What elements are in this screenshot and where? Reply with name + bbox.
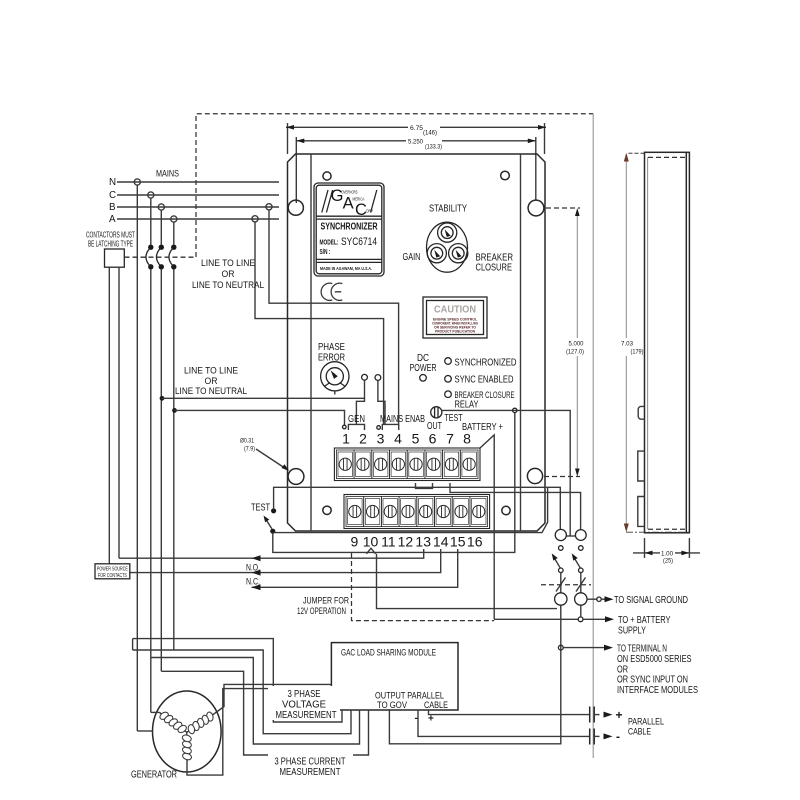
svg-text:MADE IN AGAWAM, MA U.S.A.: MADE IN AGAWAM, MA U.S.A. — [320, 266, 372, 271]
wire from mains B to panel terminal 4 — [269, 210, 399, 424]
wire A drop to contact — [173, 222, 175, 245]
gen jack circle 1 — [362, 374, 368, 380]
svg-text:VOLTAGE: VOLTAGE — [282, 700, 326, 711]
module sense wire 4 — [161, 671, 368, 755]
cable break bars + — [589, 707, 591, 723]
wire gen sense 1 — [162, 397, 365, 399]
dimension 5.000 (127.0) — [546, 207, 580, 209]
svg-text:3: 3 — [377, 431, 385, 447]
svg-text:MODEL:: MODEL: — [320, 238, 339, 247]
parallel cable minus wire — [418, 710, 589, 736]
sense bus end stub — [132, 639, 134, 650]
test jack circles — [555, 529, 566, 540]
svg-text:11: 11 — [381, 534, 396, 550]
svg-text:A: A — [109, 214, 116, 225]
terminal numbers 1-8 — [342, 431, 471, 447]
junction to terminal n — [558, 645, 563, 650]
svg-text:TO TERMINAL N: TO TERMINAL N — [617, 643, 667, 654]
led breaker closure relay — [445, 391, 452, 398]
wire C below contact — [150, 269, 152, 712]
svg-text:CLOSURE: CLOSURE — [476, 263, 513, 274]
svg-text:15: 15 — [450, 534, 466, 550]
svg-text:13: 13 — [415, 534, 431, 550]
wire N drop — [136, 185, 138, 731]
svg-text:BE LATCHING TYPE: BE LATCHING TYPE — [88, 240, 133, 249]
n.c. line to terminal 15 — [252, 549, 458, 587]
svg-text:-: - — [616, 730, 620, 744]
svg-text:3 PHASE CURRENT: 3 PHASE CURRENT — [275, 757, 346, 768]
wire out terminal stub — [416, 483, 433, 488]
svg-text:-: - — [415, 713, 418, 724]
svg-text:5: 5 — [412, 431, 420, 447]
svg-text:5.000: 5.000 — [569, 341, 584, 348]
svg-text:TEST: TEST — [251, 502, 270, 514]
power source box — [95, 564, 130, 579]
generator — [153, 691, 222, 772]
gac load sharing module box — [331, 643, 458, 710]
contactor wire 2 to N.O. line — [118, 267, 120, 558]
svg-text:(127.0): (127.0) — [566, 349, 584, 356]
contactor switch poles — [148, 245, 153, 250]
svg-text:BREAKER CLOSURE: BREAKER CLOSURE — [455, 390, 515, 400]
shield crossing dashes — [541, 584, 591, 586]
lower terminal strip 9-16 — [344, 495, 490, 529]
wire A below contact — [173, 269, 175, 650]
svg-text:SYNCHRONIZED: SYNCHRONIZED — [455, 358, 517, 369]
caution label — [423, 297, 487, 338]
test toggle — [431, 407, 442, 418]
upper terminal strip 1-8 — [334, 448, 480, 481]
to + battery supply line — [494, 618, 578, 620]
module sense wire 3 — [151, 658, 360, 745]
dashed mounting-envelope outline — [196, 114, 593, 257]
svg-text:C: C — [109, 190, 116, 201]
n.o. line to terminal 13 — [119, 549, 424, 558]
svg-text:+: + — [616, 708, 623, 722]
svg-text:(25): (25) — [663, 558, 673, 565]
svg-text:N: N — [109, 177, 116, 188]
svg-text:SYC6714: SYC6714 — [341, 236, 377, 248]
svg-text:LINE TO NEUTRAL: LINE TO NEUTRAL — [175, 386, 247, 397]
contactor wire 1 — [108, 267, 110, 564]
svg-text:TO SIGNAL GROUND: TO SIGNAL GROUND — [614, 594, 688, 606]
svg-text:MEASUREMENT: MEASUREMENT — [280, 767, 341, 778]
svg-text:14: 14 — [433, 534, 449, 550]
wire left test switch bottom to toggle net — [273, 413, 515, 553]
contacts linkage dashed — [125, 256, 197, 258]
side view tabs — [638, 406, 644, 419]
svg-text:12V OPERATION: 12V OPERATION — [297, 606, 346, 617]
gen jack circle 2 — [375, 375, 381, 381]
svg-text:CONTACTORS MUST: CONTACTORS MUST — [86, 231, 135, 240]
junction dot gen A — [172, 408, 177, 413]
terminal cover edge — [274, 487, 548, 532]
svg-text:GENERATOR: GENERATOR — [131, 769, 177, 781]
module sense wire 1 — [133, 639, 342, 722]
svg-text:4: 4 — [394, 431, 402, 447]
svg-text:SYNCHRONIZER: SYNCHRONIZER — [321, 222, 378, 233]
svg-text:OR: OR — [222, 269, 235, 280]
generator winding right — [187, 714, 215, 733]
svg-text:MAINS: MAINS — [156, 169, 179, 180]
led sync enabled — [445, 376, 452, 383]
svg-text:(7.9): (7.9) — [244, 446, 255, 453]
svg-text:+: + — [428, 714, 434, 725]
generator phase C lead — [151, 711, 160, 713]
svg-text:ORP: ORP — [366, 208, 373, 213]
battery+ wire from terminal 8 — [493, 449, 495, 620]
svg-text:POWER: POWER — [410, 363, 437, 374]
svg-text:MEASUREMENT: MEASUREMENT — [276, 710, 337, 721]
generator bottom lead / current wire 2 — [187, 689, 331, 776]
synchronizer panel outline — [288, 154, 546, 531]
svg-text:(179): (179) — [631, 349, 644, 356]
CE mark — [321, 283, 342, 300]
measurement labels — [268, 686, 340, 720]
dimension 6.75 (146) — [286, 123, 546, 154]
node circles on mains lines — [134, 179, 140, 185]
svg-text:CAUTION: CAUTION — [434, 304, 476, 316]
svg-text:TEST: TEST — [445, 412, 463, 424]
toggle wire to jacks — [442, 410, 570, 536]
svg-text:1.00: 1.00 — [661, 551, 673, 558]
svg-text:10: 10 — [363, 534, 379, 550]
svg-text:JUMPER FOR: JUMPER FOR — [303, 596, 349, 607]
svg-text:POWER SOURCE: POWER SOURCE — [97, 566, 128, 572]
svg-text:GEN: GEN — [348, 413, 365, 425]
svg-text:PRODUCT PUBLICATION: PRODUCT PUBLICATION — [435, 329, 475, 334]
svg-text:B: B — [109, 202, 116, 213]
terminal 10 split wire — [367, 548, 376, 554]
svg-text:(146): (146) — [423, 131, 437, 137]
generator winding left — [160, 713, 187, 733]
dimension 1.00 (25) — [644, 538, 646, 558]
svg-text:OR SYNC INPUT ON: OR SYNC INPUT ON — [617, 674, 688, 685]
junction dot gen B — [160, 396, 165, 401]
led synchronized — [445, 358, 452, 365]
svg-text:8: 8 — [463, 431, 471, 447]
svg-text:5.250: 5.250 — [408, 139, 423, 146]
svg-text:7.03: 7.03 — [621, 341, 633, 348]
svg-text:S/N :: S/N : — [320, 247, 331, 256]
wire gen sense 2 — [175, 410, 345, 425]
svg-text:7: 7 — [446, 431, 454, 447]
svg-text:2: 2 — [359, 431, 367, 447]
cable break bars - — [589, 729, 591, 745]
svg-text:SUPPLY: SUPPLY — [618, 625, 646, 637]
ground jack circles — [555, 593, 567, 605]
svg-text:RELAY: RELAY — [455, 400, 479, 411]
svg-text:MAINS ENAB: MAINS ENAB — [380, 413, 425, 425]
side view body — [645, 152, 690, 533]
wire from mains A to panel terminal 3 — [255, 222, 384, 424]
common line to terminal 14 — [130, 549, 441, 573]
parallel cable plus wire — [429, 710, 590, 715]
svg-text:Ø0.31: Ø0.31 — [240, 438, 254, 445]
svg-text:FOR CONTACTS: FOR CONTACTS — [98, 573, 127, 579]
svg-text:ON ESD5000 SERIES: ON ESD5000 SERIES — [617, 654, 692, 665]
svg-text:GAIN: GAIN — [403, 252, 421, 263]
generator phase lead right / current wire 1 — [215, 684, 332, 713]
svg-text:SYNC ENABLED: SYNC ENABLED — [455, 375, 514, 386]
svg-text:16: 16 — [467, 534, 483, 550]
wire C drop to contact — [150, 198, 152, 245]
terminal numbers 9-16 — [351, 534, 483, 550]
svg-text:3 PHASE: 3 PHASE — [288, 689, 321, 700]
jumper for 12v dashed path — [352, 553, 495, 621]
dimension 5.250 (133.3) — [296, 137, 536, 203]
svg-text:LINE TO LINE: LINE TO LINE — [184, 366, 238, 377]
switch levers — [554, 558, 560, 569]
svg-text:6: 6 — [429, 431, 437, 447]
svg-text:OUTPUT PARALLEL: OUTPUT PARALLEL — [375, 690, 444, 700]
generator neutral wire — [137, 730, 152, 732]
generator winding bottom — [186, 732, 188, 762]
to signal ground line — [587, 598, 597, 600]
GAC nameplate label — [314, 183, 384, 276]
dimension 7.03 (179) — [629, 152, 645, 154]
svg-text:CABLE: CABLE — [628, 727, 651, 738]
wire B drop to contact — [160, 210, 162, 245]
svg-text:6.75: 6.75 — [410, 125, 423, 132]
battery jack stub — [580, 605, 582, 617]
contactor coil box — [105, 249, 125, 267]
svg-text:INTERFACE MODULES: INTERFACE MODULES — [617, 685, 698, 696]
panel mounting holes — [323, 172, 331, 180]
leader from battery label to terminal 8 — [466, 435, 494, 461]
wire terminal 7 to right jack — [450, 483, 581, 529]
wire B below contact — [160, 269, 162, 671]
svg-text:1: 1 — [342, 431, 350, 447]
svg-text:12: 12 — [398, 534, 414, 550]
wire left test switch top loop — [274, 487, 561, 529]
svg-text:LINE TO LINE: LINE TO LINE — [201, 258, 255, 269]
wire jack to gov output — [389, 605, 560, 744]
svg-text:LINE TO NEUTRAL: LINE TO NEUTRAL — [192, 280, 264, 291]
module sense wire 2 — [133, 650, 351, 734]
svg-text:TO GOV: TO GOV — [377, 700, 407, 710]
svg-text:CABLE: CABLE — [424, 700, 448, 710]
svg-text:GAC LOAD SHARING MODULE: GAC LOAD SHARING MODULE — [341, 648, 436, 658]
svg-text:(133.3): (133.3) — [425, 145, 442, 151]
svg-text:9: 9 — [351, 534, 359, 550]
svg-text:STABILITY: STABILITY — [429, 204, 467, 215]
panel inner bend lines — [310, 154, 312, 531]
